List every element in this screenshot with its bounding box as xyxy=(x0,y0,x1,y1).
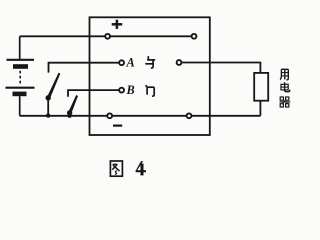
black box (gate unit) xyxy=(90,17,210,135)
battery GB (two cells with dashed continuation) xyxy=(6,36,35,116)
background paper xyxy=(0,0,300,196)
switch S2 (open knife switch) xyxy=(67,95,78,118)
wire: bottom bus from battery - through box to load xyxy=(20,115,261,117)
wire: A row from switch S1 to terminal A xyxy=(49,63,122,73)
svg-text:A: A xyxy=(126,55,135,69)
wire: load bottom to bottom bus xyxy=(259,101,261,116)
switch S1 (open knife switch) xyxy=(46,73,61,118)
label + xyxy=(112,20,123,29)
label 与 (hand-drawn glyph) xyxy=(145,56,155,68)
caption 图 (hand-drawn glyph) xyxy=(110,161,122,176)
terminal output xyxy=(177,60,182,65)
terminal - left xyxy=(107,113,112,118)
caption 4 (hand-drawn bold digit) xyxy=(136,161,146,175)
load resistor (appliance) xyxy=(254,73,268,101)
terminal + left xyxy=(105,34,110,39)
terminal - right xyxy=(187,113,192,118)
label 门 (hand-drawn glyph) xyxy=(146,85,154,96)
wire: battery + to box top bus xyxy=(20,35,194,37)
wire: output row to load xyxy=(179,63,260,73)
label 电 (hand-drawn glyph) xyxy=(281,82,290,92)
svg-text:B: B xyxy=(126,83,135,97)
terminal + right xyxy=(192,34,197,39)
label 用 (hand-drawn glyph) xyxy=(280,69,288,80)
label 器 (hand-drawn glyph) xyxy=(280,97,291,107)
terminal B xyxy=(119,88,124,93)
label - xyxy=(113,124,122,126)
terminal A xyxy=(119,60,124,65)
wire: B row from switch S2 to terminal B xyxy=(68,90,122,97)
